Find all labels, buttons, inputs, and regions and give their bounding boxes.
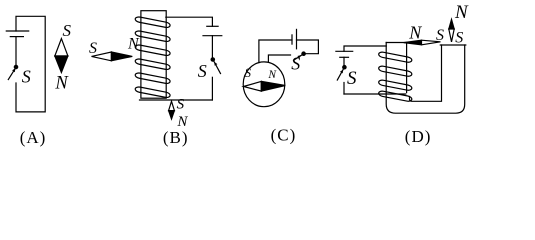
- coil turn (B): [135, 44, 171, 56]
- loop top edge (D): [440, 44, 466, 46]
- horizontal compass needle between A and B: [92, 52, 133, 61]
- svg-text:S: S: [22, 66, 31, 86]
- coil core top edge (D): [386, 42, 406, 44]
- wire: [211, 36, 213, 59]
- battery (A): [6, 31, 28, 37]
- svg-text:S: S: [89, 40, 97, 57]
- coil turn (B): [135, 86, 171, 98]
- svg-text:S: S: [198, 61, 207, 81]
- svg-text:(C): (C): [271, 126, 297, 145]
- circuit A loop wire: [16, 16, 45, 112]
- core left edge joining outer loop (D): [386, 43, 465, 114]
- svg-text:S: S: [291, 53, 300, 73]
- svg-text:S: S: [436, 27, 444, 44]
- svg-text:(D): (D): [405, 127, 432, 146]
- compass needle (C): [244, 81, 286, 91]
- wire top (B): [166, 17, 213, 26]
- svg-text:S: S: [245, 66, 252, 80]
- coil turn (B): [135, 16, 171, 28]
- coil core (B): [141, 11, 166, 99]
- compass body (C): [243, 62, 285, 107]
- compass needle right of A: [55, 39, 68, 73]
- switch S (A): [8, 65, 17, 79]
- vertical compass needle (D): [449, 19, 454, 42]
- svg-text:N: N: [267, 69, 277, 81]
- coil turn (D): [378, 51, 412, 63]
- coil turn (D): [378, 65, 412, 77]
- horizontal compass needle (D): [404, 40, 441, 45]
- wire: [343, 57, 345, 65]
- core right edge (D): [406, 43, 408, 93]
- wire left (C): [259, 40, 292, 63]
- coil turn (B): [135, 58, 171, 70]
- svg-text:S: S: [177, 97, 185, 113]
- svg-text:N: N: [127, 36, 140, 53]
- svg-text:S: S: [455, 29, 463, 46]
- svg-text:(A): (A): [20, 128, 47, 147]
- switch S (B): [211, 58, 220, 74]
- svg-text:N: N: [54, 73, 69, 93]
- svg-text:(B): (B): [163, 128, 189, 147]
- wire: [15, 37, 17, 67]
- battery (D): [336, 51, 353, 57]
- loop inner edge (D): [410, 45, 442, 101]
- wire bottom (B): [140, 99, 213, 101]
- wire: [211, 77, 213, 100]
- coil turn (D): [378, 79, 412, 91]
- switch S (C): [294, 52, 306, 60]
- wire top (D): [344, 46, 386, 51]
- coil turn (B): [135, 72, 171, 84]
- wire right (C): [297, 40, 319, 54]
- switch S (D): [337, 66, 346, 81]
- battery (B): [203, 26, 222, 35]
- wire: [343, 83, 345, 95]
- svg-text:N: N: [454, 2, 469, 23]
- svg-text:S: S: [347, 68, 357, 89]
- wire bottom (D): [344, 93, 406, 95]
- wire stub (C): [268, 55, 290, 62]
- svg-text:S: S: [63, 21, 72, 40]
- compass needle below B: [169, 101, 175, 119]
- battery (C): [292, 29, 297, 48]
- coil turn (D): [378, 90, 412, 102]
- coil turn (B): [135, 30, 171, 42]
- svg-text:N: N: [408, 23, 422, 43]
